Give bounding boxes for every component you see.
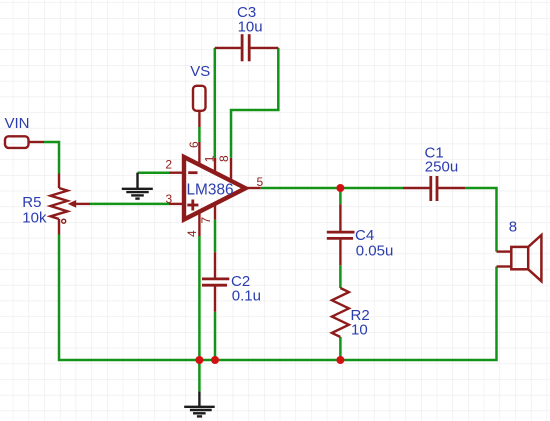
- svg-text:10u: 10u: [238, 19, 263, 36]
- svg-text:10: 10: [351, 322, 368, 339]
- svg-text:8: 8: [509, 219, 517, 236]
- svg-text:R5: R5: [22, 194, 41, 211]
- svg-text:6: 6: [187, 141, 201, 148]
- svg-text:VS: VS: [190, 63, 210, 80]
- svg-text:1: 1: [203, 155, 217, 162]
- svg-text:C4: C4: [355, 227, 374, 244]
- svg-text:LM386: LM386: [187, 181, 234, 198]
- svg-text:2: 2: [165, 158, 172, 172]
- svg-text:4: 4: [185, 230, 199, 237]
- svg-text:8: 8: [217, 155, 231, 162]
- svg-text:0.05u: 0.05u: [356, 243, 394, 260]
- svg-text:7: 7: [199, 217, 213, 224]
- svg-text:250u: 250u: [425, 159, 458, 176]
- svg-text:0.1u: 0.1u: [232, 288, 261, 305]
- svg-text:3: 3: [166, 192, 173, 206]
- svg-text:VIN: VIN: [5, 115, 30, 132]
- svg-text:10k: 10k: [22, 210, 47, 227]
- svg-text:5: 5: [257, 175, 264, 189]
